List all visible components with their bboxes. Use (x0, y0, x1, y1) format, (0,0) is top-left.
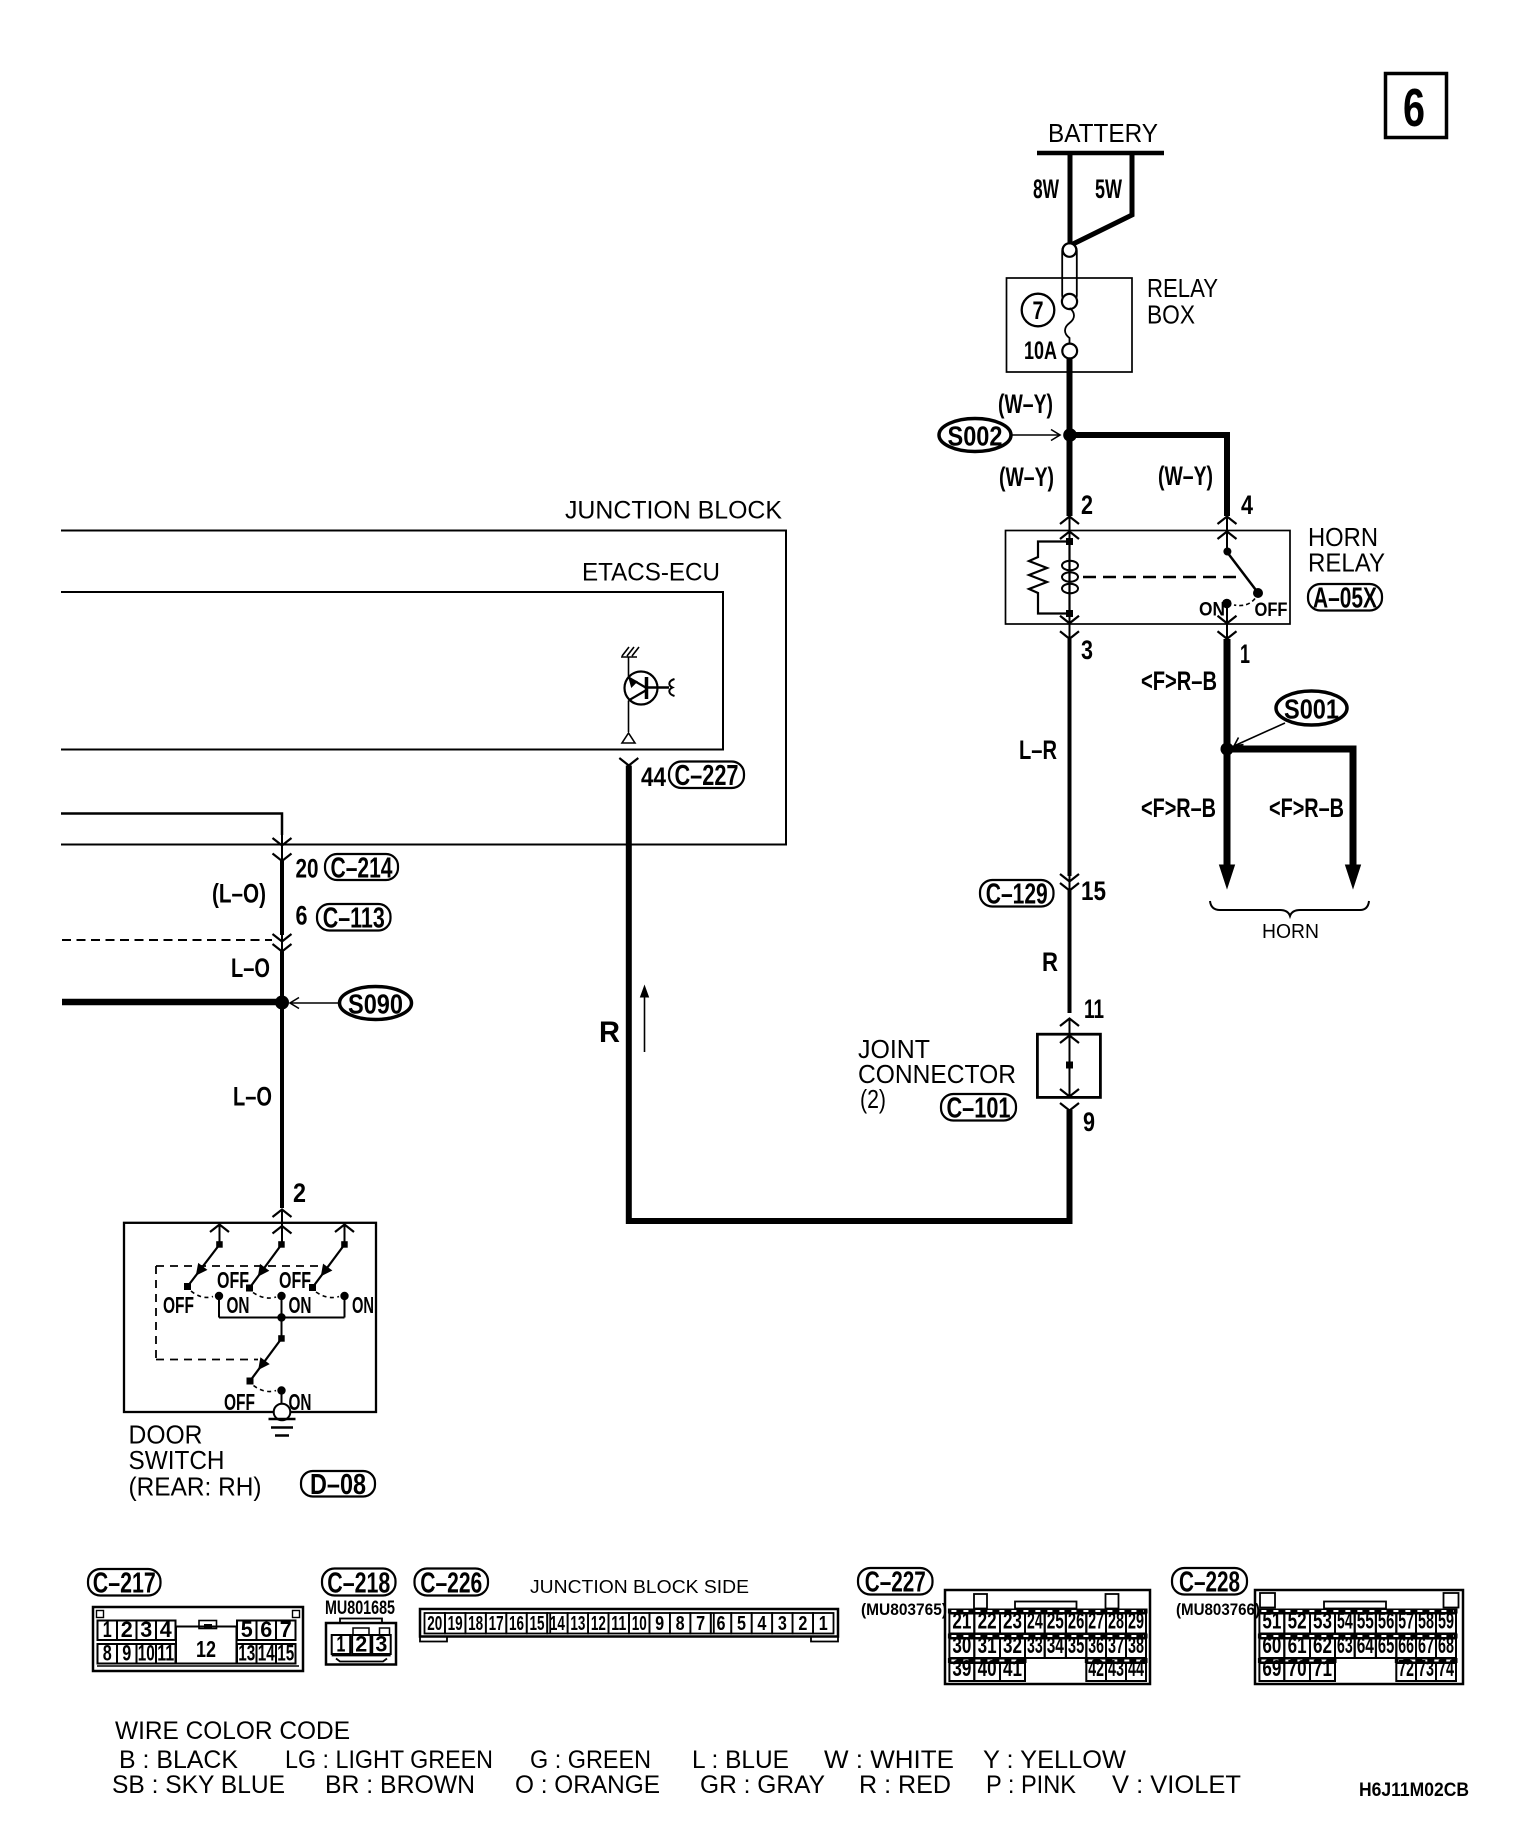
dashed arc switch 3 (316, 1292, 339, 1298)
common switch blade (247, 1339, 282, 1385)
label L-O upper (231, 953, 270, 983)
svg-text:RELAY: RELAY (1147, 273, 1218, 303)
common bus wire (219, 1313, 345, 1321)
splice callout S001 (1234, 691, 1347, 746)
joint connector box C-101 (1037, 1034, 1100, 1097)
svg-text:2: 2 (121, 1617, 133, 1642)
drawing number H6J11M02CB (1359, 1780, 1469, 1801)
svg-text:12: 12 (196, 1636, 216, 1662)
svg-text:1: 1 (336, 1632, 345, 1657)
svg-text:MU801685: MU801685 (325, 1598, 395, 1619)
wire F R-B pin1 down to S001 (1224, 639, 1231, 749)
svg-text:(W–Y): (W–Y) (998, 389, 1053, 419)
svg-text:33: 33 (1027, 1632, 1043, 1658)
joint connector chevrons bottom (1060, 1089, 1079, 1111)
svg-text:R: R (599, 1016, 620, 1049)
dashed mechanical link line (62, 939, 272, 941)
dashed arc switch 1 (191, 1291, 213, 1297)
label (L-O) (212, 879, 266, 909)
pin number 11 (1084, 994, 1104, 1024)
page number box 6 (1386, 74, 1447, 139)
part number MU801685 (325, 1598, 395, 1619)
svg-text:17: 17 (489, 1613, 504, 1635)
connector code C-113 (317, 903, 391, 935)
svg-text:11: 11 (1084, 994, 1104, 1024)
svg-text:43: 43 (1108, 1655, 1124, 1681)
svg-text:SWITCH: SWITCH (129, 1445, 225, 1475)
svg-text:9: 9 (1083, 1107, 1095, 1137)
wire L-O down to door switch (280, 1002, 284, 1208)
switch blade 3 (309, 1241, 348, 1291)
svg-text:7: 7 (696, 1613, 705, 1635)
svg-text:24: 24 (1027, 1608, 1043, 1634)
svg-text:39: 39 (952, 1655, 971, 1681)
label 5W (1095, 174, 1122, 204)
svg-text:C–214: C–214 (331, 852, 393, 884)
svg-text:59: 59 (1438, 1608, 1454, 1634)
svg-text:5: 5 (241, 1617, 253, 1642)
label JUNCTION BLOCK (565, 497, 782, 525)
wire 8W from battery (1068, 153, 1073, 248)
joint connector chevrons top (1060, 1019, 1079, 1063)
connector C-227 pinout (945, 1590, 1150, 1684)
svg-text:44: 44 (641, 762, 666, 792)
svg-text:S001: S001 (1284, 694, 1339, 725)
svg-text:7: 7 (280, 1617, 292, 1642)
current direction arrow (641, 986, 649, 1052)
svg-text:3: 3 (778, 1613, 787, 1635)
label L-R (1019, 735, 1057, 765)
connector code C-228 (1172, 1567, 1247, 1599)
label <F>R-B right horn (1269, 793, 1344, 823)
wire L-O between C-214 and C-113 (280, 861, 284, 935)
svg-text:65: 65 (1378, 1632, 1395, 1658)
label DOOR SWITCH (REAR: RH) (129, 1420, 262, 1502)
label OFF common (224, 1389, 255, 1415)
svg-text:35: 35 (1068, 1632, 1085, 1658)
svg-text:1: 1 (103, 1617, 112, 1642)
svg-text:6: 6 (296, 901, 308, 931)
pin number 9 (1083, 1107, 1095, 1137)
svg-text:63: 63 (1337, 1632, 1353, 1658)
svg-text:RELAY: RELAY (1308, 548, 1385, 578)
svg-text:H6J11M02CB: H6J11M02CB (1359, 1780, 1469, 1801)
wire color code heading (115, 1717, 350, 1745)
label <F>R-B left horn (1141, 793, 1216, 823)
svg-text:R: R (1042, 947, 1058, 977)
label RELAY BOX (1147, 273, 1218, 330)
svg-text:34: 34 (1047, 1632, 1064, 1658)
pin number 3 horn relay (1081, 635, 1093, 665)
svg-text:C–113: C–113 (323, 903, 385, 935)
svg-text:54: 54 (1337, 1608, 1353, 1634)
svg-text:A–05X: A–05X (1313, 583, 1377, 615)
connector code C-227 junction block side (858, 1567, 933, 1599)
svg-text:ETACS-ECU: ETACS-ECU (582, 559, 720, 587)
svg-text:57: 57 (1398, 1608, 1414, 1634)
svg-text:P : PINK: P : PINK (986, 1771, 1076, 1799)
connector code C-101 (941, 1093, 1016, 1125)
svg-text:53: 53 (1313, 1608, 1332, 1634)
svg-text:OFF: OFF (224, 1389, 255, 1415)
relay box (1007, 278, 1133, 372)
svg-text:4: 4 (1241, 490, 1253, 520)
wire R to joint connector (1068, 890, 1072, 1013)
svg-text:(W–Y): (W–Y) (999, 462, 1054, 492)
wire joint connector 9 down to corner (1067, 1111, 1073, 1223)
label HORN (1262, 921, 1319, 943)
connector C-226 pinout (420, 1609, 838, 1642)
svg-text:15: 15 (277, 1641, 294, 1666)
svg-text:42: 42 (1088, 1655, 1104, 1681)
connector C-217 pinout (93, 1607, 303, 1671)
label JOINT CONNECTOR (2) (858, 1034, 1016, 1114)
svg-text:BOX: BOX (1147, 300, 1195, 330)
svg-text:9: 9 (122, 1641, 131, 1666)
connector chevron pin 44 (619, 758, 638, 766)
svg-text:(2): (2) (860, 1084, 886, 1114)
svg-text:S090: S090 (348, 989, 403, 1020)
label (W-Y) above S002 (998, 389, 1053, 419)
svg-text:14: 14 (258, 1641, 276, 1666)
door switch box D-08 (124, 1223, 376, 1412)
svg-text:HORN: HORN (1262, 921, 1319, 943)
label (W-Y) pin 4 (1158, 461, 1213, 491)
svg-text:71: 71 (1313, 1655, 1332, 1681)
svg-text:10: 10 (138, 1641, 155, 1666)
svg-text:R : RED: R : RED (859, 1771, 951, 1799)
label <F>R-B pin 1 (1141, 666, 1217, 696)
svg-text:74: 74 (1438, 1655, 1454, 1681)
svg-text:O : ORANGE: O : ORANGE (515, 1771, 660, 1799)
horn relay ON contact (1222, 599, 1232, 609)
svg-text:22: 22 (978, 1608, 997, 1634)
connector code A-05X (1308, 583, 1382, 615)
pin number 1 horn relay (1240, 639, 1250, 669)
svg-text:14: 14 (550, 1613, 566, 1635)
svg-text:10A: 10A (1024, 337, 1057, 365)
svg-text:C–217: C–217 (93, 1568, 156, 1600)
svg-text:OFF: OFF (279, 1267, 311, 1293)
connector chevrons pin 2 (1060, 517, 1079, 542)
coil-to-contact dashed link (1083, 576, 1240, 579)
wire 5W from battery (1071, 153, 1132, 245)
svg-text:C–227: C–227 (865, 1567, 926, 1599)
thick branch wire into S090 (62, 999, 282, 1006)
svg-text:4: 4 (160, 1617, 173, 1642)
connector C-129 chevrons (1060, 874, 1079, 891)
connector chevrons pin 4 (1218, 517, 1237, 552)
ON contact switch 1 (215, 1292, 250, 1318)
dashed arc switch 2 (253, 1293, 276, 1299)
node S002 junction dot (1063, 428, 1077, 442)
wire S002 to horn relay pin 4 (1070, 435, 1228, 516)
label (W-Y) pin 2 (999, 462, 1054, 492)
svg-text:69: 69 (1262, 1655, 1281, 1681)
svg-text:58: 58 (1418, 1608, 1434, 1634)
svg-text:51: 51 (1262, 1608, 1281, 1634)
svg-text:V : VIOLET: V : VIOLET (1112, 1771, 1241, 1799)
svg-text:C–226: C–226 (420, 1567, 482, 1599)
node S090 junction dot (275, 996, 289, 1010)
svg-text:(L–O): (L–O) (212, 879, 266, 909)
svg-text:20: 20 (296, 854, 319, 884)
svg-text:JUNCTION BLOCK SIDE: JUNCTION BLOCK SIDE (530, 1577, 749, 1597)
connector code C-218 (322, 1567, 396, 1599)
connector C-228 pinout (1255, 1590, 1463, 1684)
ground (269, 1419, 296, 1436)
pin number 15 (1081, 876, 1106, 906)
svg-text:(W–Y): (W–Y) (1158, 461, 1213, 491)
arrow to right horn (1346, 865, 1361, 888)
svg-text:52: 52 (1288, 1608, 1307, 1634)
svg-text:BR : BROWN: BR : BROWN (325, 1771, 475, 1799)
connector chevrons pin 1 (1218, 608, 1237, 639)
svg-text:2: 2 (1081, 490, 1093, 520)
svg-text:44: 44 (1128, 1655, 1144, 1681)
connector C-218 pinout (326, 1619, 396, 1665)
svg-text:OFF: OFF (1255, 600, 1288, 621)
svg-text:26: 26 (1068, 1608, 1084, 1634)
svg-text:S002: S002 (948, 421, 1003, 452)
pin number 2 door switch (293, 1178, 306, 1208)
dashed linkage rectangle (156, 1266, 319, 1360)
ON contact common (277, 1386, 311, 1415)
part number MU803766 (1176, 1600, 1260, 1619)
svg-text:(MU803765): (MU803765) (861, 1600, 947, 1619)
connector chevrons pin 3 (1060, 616, 1079, 639)
svg-text:1: 1 (819, 1613, 828, 1635)
pin number 20 (296, 854, 319, 884)
svg-text:64: 64 (1357, 1632, 1374, 1658)
svg-text:Y : YELLOW: Y : YELLOW (983, 1746, 1126, 1774)
horn relay switch blade (1223, 548, 1263, 599)
pin number 6 (296, 901, 308, 931)
svg-text:WIRE COLOR CODE: WIRE COLOR CODE (115, 1717, 350, 1745)
svg-text:(MU803766): (MU803766) (1176, 1600, 1260, 1619)
svg-text:73: 73 (1418, 1655, 1434, 1681)
svg-text:BATTERY: BATTERY (1048, 118, 1158, 148)
svg-text:27: 27 (1088, 1608, 1104, 1634)
label OFF switch 2 (217, 1267, 249, 1293)
ETACS-ECU box (61, 592, 723, 750)
connector code C-129 (980, 879, 1054, 911)
svg-text:16: 16 (509, 1613, 524, 1635)
dashed arc common (254, 1386, 277, 1392)
label OFF switch 1 (163, 1292, 194, 1318)
label R vertical wire (599, 1016, 620, 1049)
svg-text:10: 10 (632, 1613, 647, 1635)
svg-text:GR : GRAY: GR : GRAY (700, 1771, 825, 1799)
svg-text:11: 11 (157, 1641, 174, 1666)
wire W-Y fuse to horn relay pin 2 (1067, 358, 1073, 516)
svg-text:C–218: C–218 (327, 1567, 390, 1599)
wire color code line 2 (112, 1771, 1241, 1799)
joint connector internal dot (1066, 1062, 1073, 1097)
svg-text:ON: ON (289, 1292, 312, 1318)
svg-text:55: 55 (1357, 1608, 1374, 1634)
svg-text:6: 6 (717, 1613, 726, 1635)
wire R from pin 44 down and across to joint connector (629, 766, 1070, 1222)
splice callout S002 (939, 419, 1060, 452)
wire color code line 1 (119, 1746, 1126, 1774)
ON contact switch 3 (340, 1292, 374, 1318)
svg-text:3: 3 (375, 1632, 387, 1657)
connector C-113 chevrons (273, 934, 292, 952)
svg-text:C–228: C–228 (1179, 1567, 1240, 1599)
svg-text:9: 9 (655, 1613, 664, 1635)
door switch contact 3 chevron (335, 1225, 354, 1246)
svg-text:LG : LIGHT GREEN: LG : LIGHT GREEN (285, 1746, 493, 1774)
common switch stem (278, 1318, 285, 1342)
svg-text:41: 41 (1003, 1655, 1022, 1681)
svg-text:29: 29 (1128, 1608, 1144, 1634)
svg-text:L–O: L–O (233, 1082, 272, 1112)
connector code C-226 (415, 1567, 489, 1599)
svg-text:18: 18 (468, 1613, 483, 1635)
connector code C-217 (88, 1568, 161, 1600)
svg-text:6: 6 (1403, 78, 1425, 138)
label ETACS-ECU (582, 559, 720, 587)
horn relay resistor (1029, 542, 1070, 614)
connector chevrons door switch pin 2 (273, 1210, 292, 1246)
part number MU803765 (861, 1600, 947, 1619)
splice callout S090 (290, 987, 412, 1020)
connector code C-227 (669, 760, 744, 792)
svg-text:<F>R–B: <F>R–B (1269, 793, 1344, 823)
svg-text:8: 8 (103, 1641, 112, 1666)
transistor Q1 ECU output driver (622, 657, 675, 743)
svg-text:OFF: OFF (163, 1292, 194, 1318)
fuse rating 10A (1024, 337, 1057, 365)
label HORN RELAY (1308, 522, 1385, 578)
svg-text:8: 8 (676, 1613, 685, 1635)
svg-text:4: 4 (757, 1613, 767, 1635)
svg-text:7: 7 (1033, 297, 1044, 325)
svg-text:12: 12 (591, 1613, 606, 1635)
wire to door switch inside junction block (61, 814, 282, 836)
svg-text:SB : SKY BLUE: SB : SKY BLUE (112, 1771, 285, 1799)
svg-text:11: 11 (611, 1613, 626, 1635)
svg-text:20: 20 (427, 1613, 442, 1635)
fuse number 7 (1022, 294, 1055, 327)
label 8W (1033, 174, 1059, 204)
svg-text:2: 2 (798, 1613, 807, 1635)
svg-text:G : GREEN: G : GREEN (530, 1746, 651, 1774)
switch blade 1 (184, 1241, 223, 1290)
wire S001 branch to right horn (1227, 749, 1353, 866)
label ON (1199, 600, 1225, 621)
horn relay box (1006, 531, 1291, 625)
svg-text:ON: ON (289, 1389, 312, 1415)
svg-text:25: 25 (1047, 1608, 1064, 1634)
svg-text:B : BLACK: B : BLACK (119, 1746, 238, 1774)
svg-text:8W: 8W (1033, 174, 1059, 204)
svg-text:23: 23 (1003, 1608, 1022, 1634)
svg-text:<F>R–B: <F>R–B (1141, 666, 1217, 696)
wire S001 to left horn (1224, 749, 1231, 866)
label OFF switch 3 (279, 1267, 311, 1293)
svg-text:3: 3 (1081, 635, 1093, 665)
svg-text:D–08: D–08 (310, 1469, 366, 1501)
svg-text:56: 56 (1378, 1608, 1394, 1634)
fusible link (1062, 243, 1077, 358)
svg-text:19: 19 (448, 1613, 463, 1635)
pin number 44 (641, 762, 666, 792)
dashed OFF arc (1234, 599, 1255, 606)
ON contact switch 2 (277, 1292, 311, 1318)
switch blade 2 (246, 1241, 285, 1291)
wire L-O to S090 (280, 952, 284, 1003)
label JUNCTION BLOCK SIDE (530, 1577, 749, 1597)
svg-text:28: 28 (1108, 1608, 1124, 1634)
label L-O lower (233, 1082, 272, 1112)
svg-text:ON: ON (352, 1292, 374, 1318)
pin number 4 horn relay (1241, 490, 1253, 520)
horn brace (1210, 901, 1369, 916)
svg-text:W : WHITE: W : WHITE (824, 1746, 954, 1774)
arrow to left horn (1220, 865, 1235, 888)
svg-text:L–O: L–O (231, 953, 270, 983)
horn relay coil (1062, 538, 1078, 617)
svg-text:L–R: L–R (1019, 735, 1057, 765)
svg-text:13: 13 (570, 1613, 585, 1635)
svg-text:72: 72 (1398, 1655, 1414, 1681)
svg-text:(REAR: RH): (REAR: RH) (129, 1472, 262, 1502)
svg-text:15: 15 (529, 1613, 544, 1635)
svg-text:40: 40 (978, 1655, 997, 1681)
pin number 2 horn relay (1081, 490, 1093, 520)
wire L-R horn relay pin 3 down (1068, 639, 1072, 876)
svg-text:ON: ON (227, 1292, 250, 1318)
svg-text:OFF: OFF (217, 1267, 249, 1293)
svg-text:C–129: C–129 (986, 879, 1048, 911)
svg-text:L : BLUE: L : BLUE (692, 1746, 789, 1774)
svg-text:C–101: C–101 (947, 1093, 1011, 1125)
svg-text:13: 13 (238, 1641, 255, 1666)
label OFF (1255, 600, 1288, 621)
svg-text:70: 70 (1288, 1655, 1307, 1681)
connector code C-214 (325, 852, 398, 884)
svg-text:15: 15 (1081, 876, 1106, 906)
svg-text:2: 2 (355, 1632, 367, 1657)
node S001 junction dot (1221, 743, 1234, 756)
connector code D-08 (301, 1469, 375, 1501)
ECU internal link hatch mark (621, 647, 639, 657)
svg-text:6: 6 (260, 1617, 272, 1642)
case ground terminal circle (274, 1404, 291, 1421)
svg-text:C–227: C–227 (675, 760, 739, 792)
connector C-214 chevrons (273, 835, 292, 861)
svg-text:5: 5 (737, 1613, 746, 1635)
door switch contact 1 chevron (210, 1225, 229, 1246)
junction block box (61, 531, 786, 845)
svg-text:<F>R–B: <F>R–B (1141, 793, 1216, 823)
svg-text:JUNCTION BLOCK: JUNCTION BLOCK (565, 497, 782, 525)
svg-text:3: 3 (140, 1617, 152, 1642)
svg-text:1: 1 (1240, 639, 1250, 669)
battery (1037, 118, 1164, 153)
svg-text:21: 21 (952, 1608, 971, 1634)
svg-text:2: 2 (293, 1178, 306, 1208)
label R (1042, 947, 1058, 977)
svg-text:5W: 5W (1095, 174, 1122, 204)
